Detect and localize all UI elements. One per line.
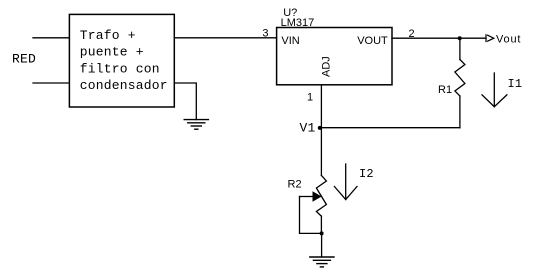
wire bbox=[320, 128, 322, 176]
svg-text:R1: R1 bbox=[438, 84, 452, 96]
svg-text:Vout: Vout bbox=[496, 33, 521, 45]
regulator U? LM317 bbox=[277, 7, 392, 85]
resistor R1 bbox=[438, 38, 465, 128]
svg-text:VIN: VIN bbox=[281, 35, 299, 47]
pin 2 wire bbox=[392, 37, 486, 39]
ground bbox=[184, 120, 208, 130]
wire pin 3 net bbox=[174, 37, 276, 39]
svg-text:condensador: condensador bbox=[80, 78, 168, 93]
svg-text:RED: RED bbox=[12, 52, 36, 67]
svg-text:ADJ: ADJ bbox=[321, 56, 333, 77]
svg-text:R2: R2 bbox=[288, 178, 302, 190]
potentiometer R2 bbox=[288, 175, 327, 233]
svg-text:3: 3 bbox=[262, 28, 268, 40]
wire bbox=[321, 233, 323, 257]
svg-text:VOUT: VOUT bbox=[357, 35, 388, 47]
svg-text:Trafo +: Trafo + bbox=[80, 28, 136, 43]
block: Trafo + puente + filtro con condensador bbox=[69, 14, 174, 107]
current arrow I2 bbox=[334, 164, 373, 200]
svg-text:V1: V1 bbox=[300, 121, 316, 136]
svg-text:2: 2 bbox=[409, 28, 415, 40]
wire bbox=[33, 37, 69, 39]
svg-text:filtro con: filtro con bbox=[80, 61, 160, 76]
svg-text:I2: I2 bbox=[359, 167, 374, 181]
svg-text:puente +: puente + bbox=[80, 45, 144, 60]
ground bbox=[310, 257, 334, 267]
pin 1 wire (ADJ) bbox=[320, 85, 322, 128]
wire bbox=[321, 127, 460, 129]
svg-text:1: 1 bbox=[307, 91, 313, 103]
junction bbox=[458, 36, 462, 40]
junction bbox=[320, 231, 324, 235]
current arrow I1 bbox=[482, 73, 522, 107]
svg-text:I1: I1 bbox=[508, 77, 523, 91]
node V1 bbox=[300, 121, 322, 136]
wire bbox=[33, 82, 69, 84]
port Vout bbox=[486, 33, 521, 45]
wire bbox=[174, 83, 196, 120]
